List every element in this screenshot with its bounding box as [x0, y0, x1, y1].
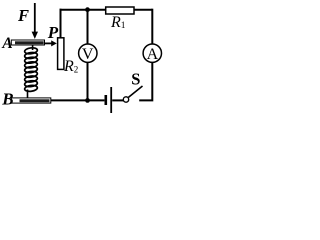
slider arm P arrow (wiper)	[45, 42, 53, 44]
svg-text:A: A	[1, 35, 12, 52]
battery cell: short thick plate (negative)	[105, 95, 108, 105]
wire: bottom horizontal from plate B to battery	[51, 99, 105, 101]
svg-text:B: B	[1, 89, 13, 108]
switch S: lever	[128, 86, 142, 97]
svg-text:S: S	[131, 70, 140, 89]
svg-text:A: A	[147, 46, 159, 63]
svg-text:P: P	[47, 23, 59, 42]
wire: voltmeter branch upper	[87, 10, 89, 44]
voltmeter U-V (circle)	[79, 44, 97, 62]
svg-text:F: F	[17, 6, 29, 25]
switch S: pivot circle	[123, 97, 128, 102]
plate B (bottom bar)	[11, 98, 50, 103]
wire: battery to switch	[112, 99, 123, 101]
wire: right vertical down to ammeter	[151, 9, 153, 44]
battery cell: long thin plate (positive)	[110, 87, 112, 113]
wire: left vertical to rheostat top	[60, 9, 62, 38]
svg-text:V: V	[82, 46, 94, 63]
wire: ammeter bottom down and stub left	[139, 63, 152, 101]
node: junction dot bottom (voltmeter tap)	[85, 98, 90, 103]
spring: bottom stem	[27, 90, 29, 98]
spring coils	[24, 47, 37, 92]
resistor R1 (box)	[106, 7, 134, 14]
rheostat R2 (box)	[58, 38, 64, 70]
ammeter U-A (circle)	[143, 44, 161, 62]
wire: top horizontal	[60, 9, 153, 11]
force F arrow	[34, 3, 36, 32]
plate A (top bar)	[11, 40, 44, 45]
wire: voltmeter branch lower	[87, 63, 89, 101]
node: junction dot top (voltmeter tap)	[85, 7, 90, 12]
spring: top stem	[32, 45, 34, 50]
